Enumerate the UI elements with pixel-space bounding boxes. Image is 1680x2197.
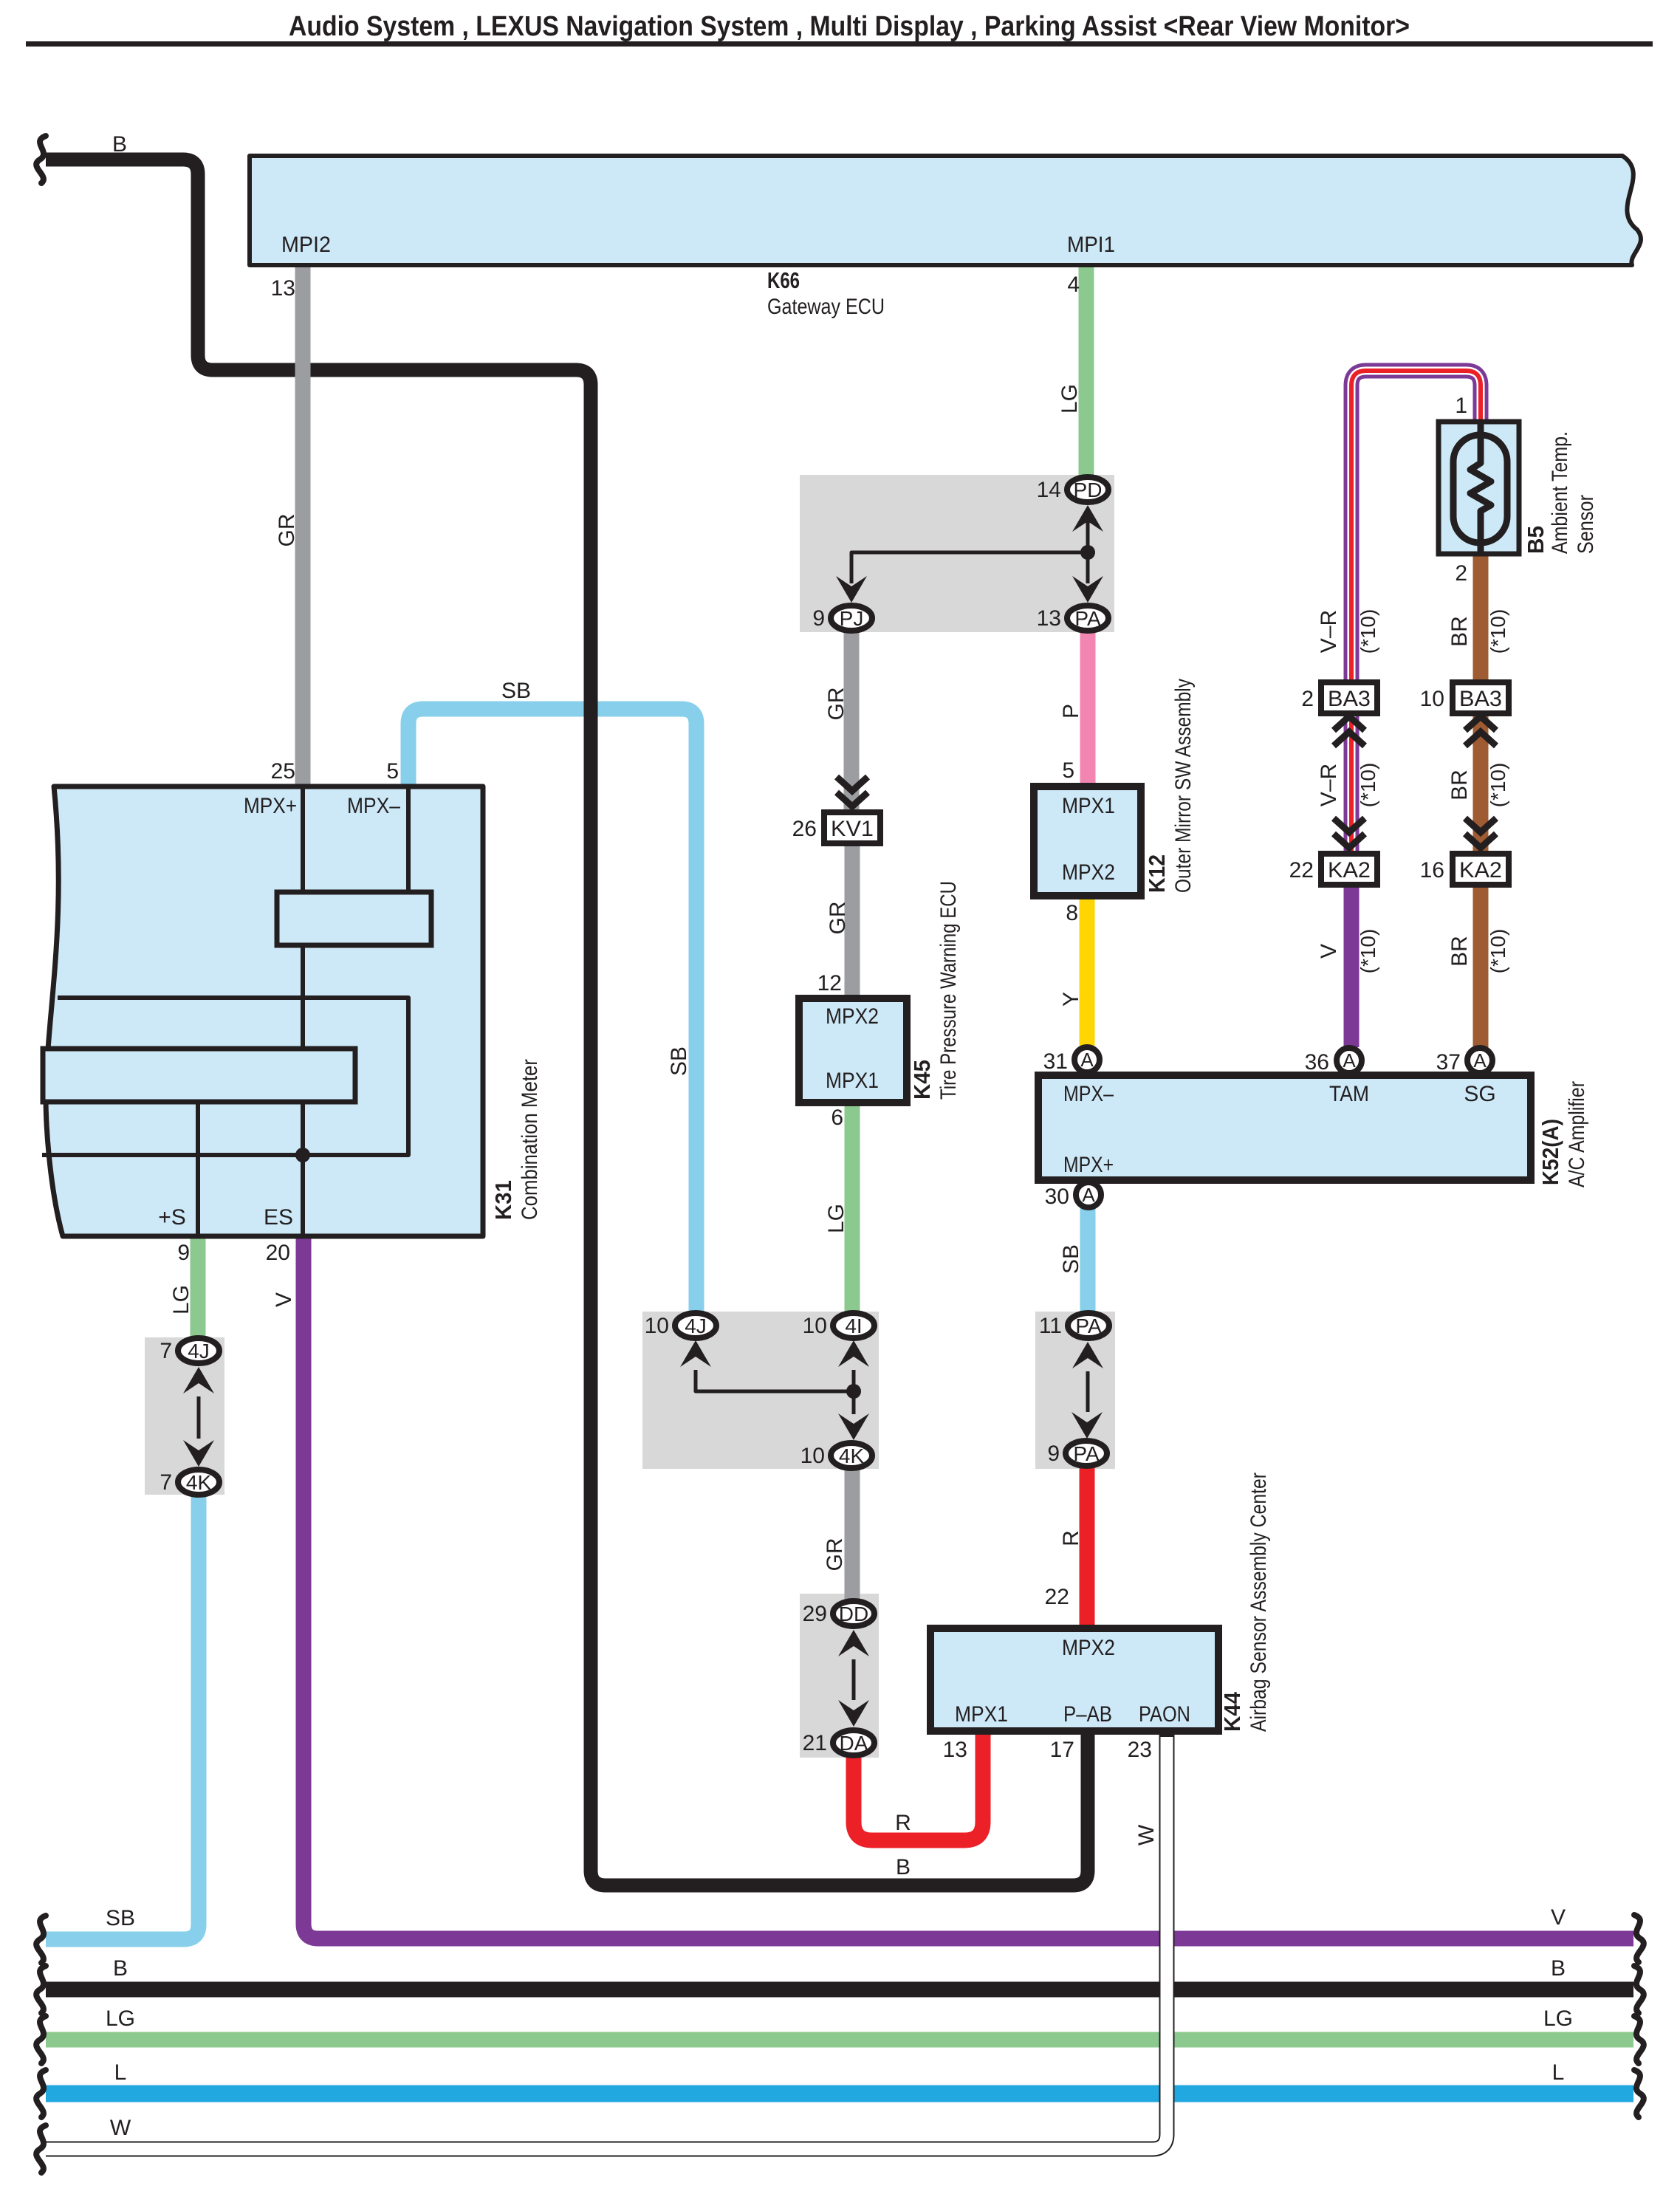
svg-text:4I: 4I xyxy=(845,1315,862,1337)
svg-text:B: B xyxy=(113,1956,128,1981)
svg-text:DD: DD xyxy=(839,1603,868,1625)
svg-text:22: 22 xyxy=(1289,858,1314,882)
K31 internal component R1 xyxy=(277,892,431,945)
svg-text:SB: SB xyxy=(667,1046,691,1076)
svg-text:MPX–: MPX– xyxy=(1063,1082,1114,1106)
wire BR from BA3 pin 10 to KA2 pin 16 xyxy=(1473,710,1489,857)
connector PA pin 11 xyxy=(1068,1313,1109,1338)
svg-text:12: 12 xyxy=(817,971,842,995)
connector DA pin 21 xyxy=(833,1730,874,1755)
svg-text:25: 25 xyxy=(271,759,295,784)
svg-text:L: L xyxy=(114,2060,127,2085)
wire P from connector PA pin 13 to K12 pin 5 (MPX1) xyxy=(1080,629,1096,789)
connector 4J pin 10 (middle) xyxy=(675,1313,716,1338)
K31 internal: MPX- lead xyxy=(406,786,411,892)
K31 internal: branch path xyxy=(42,998,408,1155)
svg-text:KA2: KA2 xyxy=(1328,858,1371,882)
combination meter K31 box xyxy=(46,786,483,1236)
wire BR from B5 pin 2 to BA3 pin 10 xyxy=(1473,552,1489,686)
svg-text:P: P xyxy=(1059,704,1083,719)
svg-text:4K: 4K xyxy=(839,1444,865,1467)
connector PA pin 13 xyxy=(1067,606,1108,631)
svg-text:DA: DA xyxy=(840,1732,868,1755)
shaft from dot to PJ arrow xyxy=(851,552,1088,583)
shaded junction box 4J/4K (left) xyxy=(145,1337,224,1495)
wire B (black) from squiggle via gateway area down to K44 pin 17 xyxy=(46,160,1088,1885)
ambient temp sensor B5 box xyxy=(1439,422,1519,554)
arrow down into 4K (middle) xyxy=(838,1413,869,1440)
arrow up into 4I with shaft and junction dot xyxy=(838,1340,869,1367)
svg-text:A: A xyxy=(1343,1049,1356,1072)
svg-text:30: 30 xyxy=(1045,1185,1069,1209)
shaft from dot to PA arrow xyxy=(1086,552,1090,583)
svg-text:V: V xyxy=(272,1292,296,1307)
svg-text:TAM: TAM xyxy=(1329,1082,1369,1106)
svg-text:ES: ES xyxy=(264,1205,293,1230)
svg-text:MPX+: MPX+ xyxy=(1063,1153,1114,1177)
svg-text:29: 29 xyxy=(803,1602,827,1626)
K31 internal: lead from R1 to ES pin xyxy=(301,945,305,1236)
svg-text:LG: LG xyxy=(824,1204,848,1233)
arrow up into 4J (middle) with shaft xyxy=(680,1340,711,1367)
arrow down into PJ xyxy=(836,576,867,603)
svg-text:10: 10 xyxy=(1420,687,1444,711)
outer mirror SW assembly K12 box xyxy=(1034,786,1141,896)
B5 thermistor capsule xyxy=(1453,435,1507,543)
svg-text:4J: 4J xyxy=(685,1315,707,1337)
svg-text:Combination Meter: Combination Meter xyxy=(518,1059,542,1220)
svg-text:R: R xyxy=(895,1811,911,1835)
svg-text:A: A xyxy=(1080,1049,1094,1071)
svg-text:+S: +S xyxy=(158,1205,186,1230)
svg-text:Airbag Sensor Assembly Center: Airbag Sensor Assembly Center xyxy=(1247,1473,1271,1732)
svg-text:W: W xyxy=(110,2116,131,2140)
svg-text:Outer Mirror SW Assembly: Outer Mirror SW Assembly xyxy=(1171,679,1196,893)
wire L bottom horizontal bus xyxy=(46,2085,1633,2102)
svg-text:9: 9 xyxy=(1047,1442,1060,1466)
connector PD pin 14 xyxy=(1067,477,1108,502)
svg-text:13: 13 xyxy=(943,1738,967,1762)
svg-text:LG: LG xyxy=(1543,2006,1573,2031)
svg-text:P–AB: P–AB xyxy=(1063,1702,1112,1727)
svg-text:GR: GR xyxy=(826,902,850,935)
svg-text:V: V xyxy=(1551,1905,1566,1930)
svg-text:4K: 4K xyxy=(186,1471,212,1494)
svg-text:V–R: V–R xyxy=(1317,764,1341,806)
connector 4K pin 10 (middle) xyxy=(831,1443,872,1468)
svg-text:PA: PA xyxy=(1075,1315,1102,1337)
svg-text:6: 6 xyxy=(831,1106,843,1130)
svg-text:L: L xyxy=(1552,2060,1565,2085)
wire SB from K52 pin 30 (A) to connector PA pin 11 xyxy=(1080,1208,1096,1315)
shaded junction box 4J/4I/4K (middle) xyxy=(642,1312,879,1469)
K31 internal component R2 xyxy=(43,1049,355,1102)
wire LG from K45 pin 6 (MPX1) to connector 4I pin 10 xyxy=(845,1100,860,1315)
svg-text:MPX2: MPX2 xyxy=(1062,860,1115,885)
svg-text:GR: GR xyxy=(824,688,848,721)
svg-text:B: B xyxy=(112,132,127,157)
wire V-R from BA3 pin 2 up over to B5 pin 1 (violet with red stripe) xyxy=(1351,371,1481,686)
svg-text:(*10): (*10) xyxy=(1357,609,1379,654)
connector PJ pin 9 xyxy=(831,606,872,631)
svg-text:Ambient Temp.: Ambient Temp. xyxy=(1548,431,1572,554)
svg-text:2: 2 xyxy=(1455,561,1467,586)
wire V from KA2 pin 22 to K52 pin 36 (TAM) xyxy=(1344,882,1360,1047)
svg-text:5: 5 xyxy=(1062,758,1074,783)
svg-text:MPX–: MPX– xyxy=(347,794,400,818)
svg-text:BA3: BA3 xyxy=(1459,687,1502,711)
svg-text:B: B xyxy=(1551,1956,1566,1981)
svg-text:B: B xyxy=(896,1855,911,1879)
svg-text:SB: SB xyxy=(1059,1244,1083,1274)
svg-text:V: V xyxy=(1317,944,1341,959)
svg-text:R: R xyxy=(1059,1530,1083,1546)
svg-text:31: 31 xyxy=(1043,1049,1068,1074)
svg-text:PA: PA xyxy=(1073,1442,1100,1465)
K31 internal: MPX+ lead xyxy=(301,786,305,892)
svg-text:SG: SG xyxy=(1464,1082,1495,1106)
svg-text:LG: LG xyxy=(169,1285,193,1315)
tire pressure warning ECU K45 box xyxy=(799,998,907,1103)
svg-text:5: 5 xyxy=(386,759,399,784)
wire W (white with outline) from K44 pin 23 (PAON) to bottom left squiggle xyxy=(46,1731,1167,2149)
wire LG from K66 pin 4 (MPI1) to connector PD pin 14 xyxy=(1079,265,1094,479)
squiggle break at left end of bottom SB wire xyxy=(36,1916,46,1963)
svg-text:10: 10 xyxy=(645,1314,669,1338)
shaded junction box PD/PJ/PA xyxy=(800,475,1114,632)
svg-text:LG: LG xyxy=(1057,384,1082,414)
squiggle break right end L xyxy=(1634,2070,1644,2117)
svg-text:7: 7 xyxy=(160,1470,172,1495)
svg-text:PAON: PAON xyxy=(1139,1702,1190,1727)
svg-text:BA3: BA3 xyxy=(1328,687,1371,711)
connector 4J pin 7 (left) xyxy=(178,1338,219,1363)
connector PA pin 9 xyxy=(1066,1441,1107,1466)
connector DD pin 29 xyxy=(833,1601,874,1626)
svg-text:Gateway ECU: Gateway ECU xyxy=(767,295,885,319)
svg-text:10: 10 xyxy=(800,1444,825,1468)
svg-text:K31: K31 xyxy=(490,1180,516,1220)
svg-text:(*10): (*10) xyxy=(1487,763,1509,808)
wire R from connector PA pin 9 to K44 pin 22 (MPX2) xyxy=(1080,1467,1095,1631)
svg-text:36: 36 xyxy=(1305,1050,1329,1074)
K31 internal junction dot xyxy=(295,1148,310,1162)
svg-text:7: 7 xyxy=(160,1339,172,1363)
connector A pin 36 on K52 xyxy=(1337,1048,1362,1073)
connector A pin 31 on K52 xyxy=(1074,1047,1100,1072)
svg-text:V–R: V–R xyxy=(1317,610,1341,653)
connector BA3 pin 10 with chevron xyxy=(1465,716,1496,730)
svg-text:W: W xyxy=(1134,1824,1159,1845)
svg-text:A: A xyxy=(1473,1049,1487,1072)
svg-text:MPX1: MPX1 xyxy=(1062,794,1115,818)
svg-text:KV1: KV1 xyxy=(831,817,874,841)
svg-text:4: 4 xyxy=(1067,273,1080,297)
svg-text:PJ: PJ xyxy=(840,607,864,630)
svg-text:13: 13 xyxy=(271,276,295,301)
squiggle break left end W xyxy=(36,2125,46,2173)
connector KV1 pin 26 with chevron xyxy=(837,777,868,791)
svg-text:GR: GR xyxy=(275,514,299,547)
connector 4I pin 10 xyxy=(833,1313,874,1338)
svg-text:11: 11 xyxy=(1039,1314,1062,1338)
svg-text:22: 22 xyxy=(1045,1585,1069,1609)
svg-text:KA2: KA2 xyxy=(1459,858,1502,882)
svg-text:LG: LG xyxy=(106,2006,135,2031)
svg-text:A/C Amplifier: A/C Amplifier xyxy=(1565,1081,1589,1187)
wire GR from connector PJ pin 9 to connector KV1 pin 26 xyxy=(844,629,860,816)
svg-text:20: 20 xyxy=(266,1241,290,1265)
svg-text:(*10): (*10) xyxy=(1357,763,1379,808)
svg-text:PA: PA xyxy=(1074,607,1101,630)
squiggle break left end bottom B xyxy=(36,1966,46,2013)
svg-text:B5: B5 xyxy=(1523,526,1549,554)
wire B bottom horizontal bus xyxy=(46,1982,1633,1998)
wire V from K31 pin 20 (ES) to bottom right squiggle xyxy=(304,1234,1633,1939)
wire GR from K66 pin 13 (MPI2) to K31 pin 25 (MPX+) xyxy=(295,265,311,789)
svg-text:BR: BR xyxy=(1447,616,1472,647)
svg-text:MPX1: MPX1 xyxy=(955,1702,1008,1727)
svg-text:MPX+: MPX+ xyxy=(244,794,297,818)
svg-text:MPI2: MPI2 xyxy=(281,233,331,257)
svg-text:PD: PD xyxy=(1074,479,1103,501)
shaded junction box DD/DA xyxy=(800,1594,879,1758)
svg-text:A: A xyxy=(1082,1184,1095,1206)
svg-text:K52(A): K52(A) xyxy=(1537,1119,1563,1185)
svg-text:4J: 4J xyxy=(188,1340,210,1363)
svg-text:MPI1: MPI1 xyxy=(1067,233,1115,257)
squiggle break right end bottom LG xyxy=(1634,2016,1644,2063)
connector 4K pin 7 (left) xyxy=(178,1470,219,1495)
svg-text:Audio System , LEXUS Navigatio: Audio System , LEXUS Navigation System ,… xyxy=(289,11,1410,42)
svg-text:GR: GR xyxy=(823,1538,847,1572)
double arrow between DD and DA xyxy=(838,1630,869,1656)
svg-text:10: 10 xyxy=(803,1314,827,1338)
svg-text:13: 13 xyxy=(1037,606,1061,631)
svg-text:Sensor: Sensor xyxy=(1574,495,1598,554)
wire LG bottom horizontal bus xyxy=(46,2032,1633,2048)
svg-text:16: 16 xyxy=(1420,858,1444,882)
wire SB from K31 pin 5 (MPX-) to connector 4J pin 10 xyxy=(408,709,696,1315)
svg-text:Y: Y xyxy=(1059,992,1083,1007)
svg-text:23: 23 xyxy=(1128,1738,1152,1762)
svg-text:MPX2: MPX2 xyxy=(1062,1636,1115,1660)
A/C amplifier K52 box xyxy=(1038,1075,1531,1180)
title underline rule xyxy=(26,41,1653,47)
svg-text:(*10): (*10) xyxy=(1487,929,1509,974)
squiggle break at left end of wire B xyxy=(36,136,46,183)
wire Y from K12 pin 8 (MPX2) to K52 pin 31 (A) xyxy=(1080,894,1095,1046)
gateway bus K66 box (MPI2 ... MPI1) xyxy=(250,156,1641,265)
wire GR from KV1 to K45 pin 12 (MPX2) xyxy=(845,843,860,1001)
svg-text:SB: SB xyxy=(501,679,531,703)
svg-text:2: 2 xyxy=(1301,687,1314,711)
connector KA2 pin 16 with chevron xyxy=(1465,818,1496,832)
svg-text:21: 21 xyxy=(803,1731,827,1755)
connector KA2 pin 22 with chevron xyxy=(1334,818,1365,832)
wire SB from connector 4K pin 7 to bottom left squiggle xyxy=(46,1492,199,1939)
arrow up into PD with shaft and junction dot xyxy=(1086,517,1090,552)
squiggle break left end L xyxy=(36,2070,46,2117)
airbag sensor assembly center K44 box xyxy=(930,1628,1218,1731)
connector A pin 30 on K52 xyxy=(1076,1182,1101,1207)
double arrow between 4J and 4K (left) xyxy=(183,1367,214,1394)
svg-text:Tire Pressure Warning ECU: Tire Pressure Warning ECU xyxy=(936,881,961,1100)
wire BR from KA2 pin 16 to K52 pin 37 (SG) xyxy=(1473,882,1489,1047)
svg-text:37: 37 xyxy=(1436,1050,1461,1074)
K31 internal: +S lead xyxy=(196,1102,200,1236)
svg-text:K45: K45 xyxy=(909,1060,935,1100)
arrow down into PA xyxy=(1072,576,1103,603)
wire R U-loop from connector DA pin 21 to K44 pin 13 (MPX1) xyxy=(854,1728,983,1840)
double arrow between PA pin 11 and PA pin 9 xyxy=(1072,1342,1103,1368)
wire V-R from BA3 pin 2 to KA2 pin 22 (violet with red stripe) xyxy=(1344,710,1360,857)
squiggle break right end bottom B xyxy=(1634,1966,1644,2013)
svg-text:(*10): (*10) xyxy=(1487,609,1509,654)
svg-text:SB: SB xyxy=(106,1906,135,1930)
shaded junction box PA/PA xyxy=(1035,1312,1115,1469)
squiggle break left end bottom LG xyxy=(36,2016,46,2063)
svg-text:BR: BR xyxy=(1447,936,1472,967)
connector A pin 37 on K52 xyxy=(1467,1048,1492,1073)
svg-text:14: 14 xyxy=(1037,478,1061,502)
svg-text:MPX2: MPX2 xyxy=(826,1004,879,1029)
squiggle break at right end of wire V xyxy=(1634,1915,1644,1962)
wire LG from K31 pin 9 (+S) to connector 4J pin 7 xyxy=(191,1234,206,1340)
svg-text:17: 17 xyxy=(1050,1738,1074,1762)
svg-text:K44: K44 xyxy=(1219,1691,1245,1732)
wire GR from connector 4K pin 10 to connector DD pin 29 xyxy=(845,1467,860,1603)
svg-text:(*10): (*10) xyxy=(1357,929,1379,974)
svg-text:9: 9 xyxy=(812,606,825,631)
svg-text:9: 9 xyxy=(177,1241,190,1265)
svg-text:BR: BR xyxy=(1447,770,1472,801)
svg-text:1: 1 xyxy=(1455,394,1467,418)
B5 thermistor zigzag element xyxy=(1470,422,1491,554)
svg-text:K12: K12 xyxy=(1144,854,1170,893)
svg-text:MPX1: MPX1 xyxy=(826,1069,879,1093)
svg-text:26: 26 xyxy=(792,817,817,841)
svg-text:K66: K66 xyxy=(767,267,800,293)
svg-text:8: 8 xyxy=(1066,901,1078,925)
connector BA3 pin 2 with chevron xyxy=(1334,716,1365,730)
